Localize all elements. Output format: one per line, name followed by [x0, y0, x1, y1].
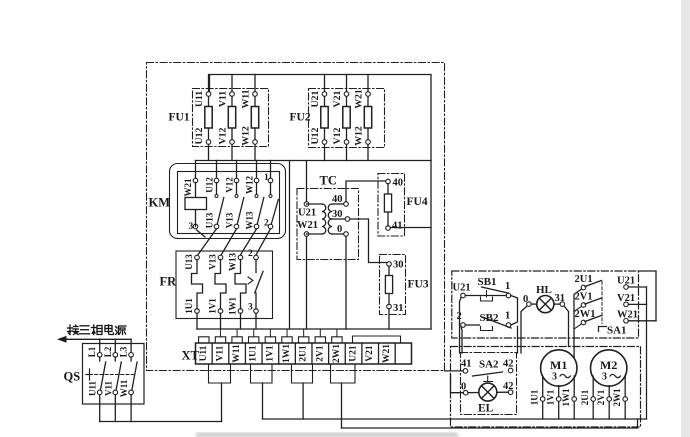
terminal XT cell 2U1 [294, 343, 296, 364]
switch QS pole L2-V11 [114, 339, 116, 355]
terminal XT cell V11 [211, 343, 213, 364]
svg-text:HL: HL [536, 284, 552, 296]
svg-text:30: 30 [393, 260, 404, 271]
svg-text:W21: W21 [382, 344, 392, 363]
svg-text:3: 3 [189, 222, 194, 232]
svg-text:1: 1 [505, 281, 510, 292]
svg-text:W21: W21 [297, 220, 318, 231]
svg-text:SB1: SB1 [478, 276, 497, 288]
wire SA1 left bundle [574, 289, 582, 347]
wire 0 left [451, 375, 464, 393]
wire XT bottom loop C [292, 364, 313, 383]
svg-text:SA1: SA1 [607, 325, 627, 337]
svg-text:2U1: 2U1 [580, 389, 590, 405]
lamp EL [479, 383, 497, 401]
svg-text:30: 30 [332, 209, 343, 220]
svg-text:2W1: 2W1 [332, 344, 342, 363]
label jie san xiang dian yuan (connect three-phase supply) [68, 325, 79, 335]
fuse FU2 element U21 [324, 75, 326, 161]
wire U21 down [460, 297, 462, 353]
svg-text:L3: L3 [119, 346, 129, 357]
transformer TC boundary [297, 189, 359, 260]
wire W21 top link [639, 271, 657, 321]
svg-text:FU4: FU4 [407, 196, 428, 208]
svg-text:W11: W11 [119, 379, 129, 397]
svg-text:V21: V21 [365, 345, 375, 362]
terminal XT cell U21 [344, 343, 346, 364]
fuse FU1 element W11 [254, 75, 256, 161]
svg-text:FU3: FU3 [408, 279, 429, 291]
wire node 1 down [517, 327, 519, 354]
wire vertical link node 2 [289, 161, 291, 330]
svg-text:31: 31 [555, 293, 566, 304]
svg-text:40: 40 [393, 178, 404, 189]
svg-text:U11: U11 [194, 91, 205, 107]
switch SA1 pole 2V1-V21 [581, 303, 586, 308]
svg-text:1V1: 1V1 [546, 389, 556, 405]
wire TC primary riser [306, 161, 308, 205]
svg-text:V13: V13 [225, 212, 235, 228]
wire SA1 bundle into panel [573, 347, 575, 358]
svg-text:U21: U21 [453, 283, 471, 294]
thermal relay FR boundary [176, 251, 273, 319]
svg-text:2U1: 2U1 [299, 345, 309, 362]
svg-text:3: 3 [552, 372, 557, 383]
wire SB1-1 to SB2-1 [511, 296, 518, 326]
svg-text:U12: U12 [205, 177, 215, 193]
svg-text:W21: W21 [617, 309, 638, 320]
thermal relay FR contact 2-3 [254, 255, 259, 260]
wire KM 2 to FR [256, 229, 271, 256]
svg-text:M1: M1 [550, 358, 567, 372]
fuse group FU1 boundary [193, 89, 269, 147]
switch SA1 linkage [601, 282, 603, 324]
fuse FU4 boundary [378, 174, 405, 237]
svg-text:U12: U12 [194, 127, 205, 144]
svg-text:FU2: FU2 [290, 112, 311, 124]
terminal XT cell 2W1 [328, 343, 330, 364]
svg-text:W13: W13 [245, 211, 255, 230]
svg-text:KM: KM [149, 196, 171, 210]
svg-text:1: 1 [505, 311, 510, 322]
switch lamp box SA2 EL [461, 353, 517, 415]
fuse FU1 element U11 [208, 75, 210, 161]
svg-text:U21: U21 [310, 90, 321, 107]
fuse FU3 boundary [380, 255, 406, 315]
svg-text:V11: V11 [215, 345, 225, 361]
wire XT bottom loop D [331, 364, 356, 383]
contactor KM outer boundary [170, 164, 286, 239]
main enclosure dash-dot border [147, 63, 445, 371]
svg-text:M2: M2 [600, 358, 617, 372]
wire XT bottom loop A [209, 364, 231, 383]
arrow to three-phase supply [61, 338, 132, 340]
lamp HL [537, 296, 554, 313]
svg-text:L1: L1 [87, 346, 97, 357]
wire FR outputs down to bundle [196, 313, 198, 329]
svg-text:1U1: 1U1 [184, 298, 194, 314]
svg-text:1W1: 1W1 [228, 297, 238, 316]
wire TC 30 to FU3 [350, 219, 387, 263]
svg-text:3: 3 [602, 372, 607, 383]
motor M2 lead 2U1 [592, 376, 594, 419]
svg-text:40: 40 [332, 194, 343, 205]
contactor KM main contact V12-V13 [234, 178, 239, 183]
wire bundle bottom (FR outputs to XT) [197, 328, 431, 330]
motor M2 lead 2W1 [624, 376, 626, 419]
svg-text:1U1: 1U1 [249, 345, 259, 362]
svg-text:EL: EL [478, 403, 494, 415]
svg-text:1U1: 1U1 [530, 389, 540, 405]
svg-text:V13: V13 [208, 254, 218, 270]
svg-text:FR: FR [160, 275, 178, 289]
svg-text:V21: V21 [617, 293, 635, 304]
button SB2 [461, 323, 466, 328]
svg-text:2V1: 2V1 [315, 345, 325, 362]
svg-text:W13: W13 [228, 253, 238, 272]
scan caption blur bottom [196, 433, 458, 437]
wire KM V13 to FR [221, 229, 237, 256]
thermal relay FR heater U13-1U1 [195, 255, 200, 260]
svg-text:1W1: 1W1 [282, 344, 292, 363]
svg-text:QS: QS [64, 370, 81, 384]
terminal XT cell 1V1 [261, 343, 263, 364]
motor M2 [591, 350, 627, 386]
fuse group FU2 boundary [309, 89, 385, 148]
wire HL 31 down [564, 306, 569, 347]
svg-text:U11: U11 [88, 381, 98, 397]
contactor KM auxiliary contact 1-2 [268, 178, 273, 183]
terminal XT cell V21 [361, 343, 363, 364]
svg-text:0: 0 [523, 294, 528, 305]
button panel boundary [452, 271, 639, 338]
fuse FU4 element [386, 179, 391, 184]
switch QS boundary [83, 344, 145, 405]
fuse FU2 element W21 [367, 75, 369, 161]
svg-text:W12: W12 [241, 126, 252, 146]
svg-text:W11: W11 [241, 89, 252, 108]
svg-text:41: 41 [461, 359, 472, 370]
svg-text:V21: V21 [332, 90, 343, 107]
button SB1 [461, 293, 466, 298]
svg-text:TC: TC [320, 174, 337, 188]
svg-text:V12: V12 [218, 127, 229, 144]
fuse FU3 element [387, 262, 392, 267]
wire drop node 2U [302, 383, 304, 419]
svg-text:1W1: 1W1 [561, 388, 571, 407]
svg-text:2V1: 2V1 [575, 292, 593, 303]
switch QS pole L3-W11 [130, 339, 132, 355]
wire bus motors [263, 418, 647, 420]
svg-text:U21: U21 [298, 208, 316, 219]
svg-text:U12: U12 [310, 127, 321, 144]
wire XT stubs from bundle [219, 329, 221, 337]
svg-text:31: 31 [393, 303, 404, 314]
wire bus lower [342, 427, 638, 429]
svg-text:U21: U21 [617, 276, 635, 287]
svg-text:2W1: 2W1 [575, 309, 596, 320]
switch SA1 handle [599, 327, 607, 332]
wire KM coil tail [197, 230, 205, 237]
svg-text:2V1: 2V1 [596, 389, 606, 405]
svg-text:41: 41 [392, 221, 403, 232]
wire FU4 41 to right bundle [391, 227, 432, 229]
svg-text:0: 0 [337, 224, 342, 235]
contactor KM main contact W12-W13 [254, 178, 259, 183]
wire drop to lower bus [341, 383, 343, 428]
svg-text:2: 2 [248, 249, 253, 259]
motor M1 lead 1V1 [558, 386, 560, 419]
switch QS linkage [90, 374, 134, 376]
svg-text:U13: U13 [184, 254, 194, 270]
svg-text:1V1: 1V1 [265, 345, 275, 362]
fuse FU2 element V21 [346, 75, 348, 161]
svg-text:U21: U21 [349, 345, 359, 362]
wire bus QS to XT [100, 421, 222, 423]
svg-text:W21: W21 [183, 178, 193, 197]
wire bundle middle (FU outputs to KM and TC) [196, 160, 432, 162]
svg-text:W11: W11 [232, 344, 242, 363]
motor panel boundary [451, 347, 641, 428]
svg-text:V12: V12 [332, 127, 343, 144]
motor M1 [541, 350, 577, 386]
contactor KM coil [193, 178, 198, 183]
terminal XT cell W11 [228, 343, 230, 364]
wire bundle top and right (inner C) [210, 75, 432, 330]
transformer TC secondary winding [344, 202, 349, 207]
wire QS outputs down [99, 395, 101, 422]
wire drop to motor bus [262, 383, 264, 419]
transformer TC primary winding [304, 202, 309, 207]
thermal relay FR heater V13-1V1 [218, 255, 223, 260]
terminal XT cell 2V1 [311, 343, 313, 364]
thermal relay FR heater W13-1W1 [238, 255, 243, 260]
wire drop to QS bus [221, 383, 223, 422]
switch SA1 pole 2W1-W21 [581, 320, 586, 325]
fuse FU1 element V11 [231, 75, 233, 161]
switch SA2 [463, 369, 468, 374]
svg-text:L2: L2 [103, 346, 113, 357]
wire TC 40 to FU4 [346, 181, 387, 202]
switch QS pole L1-U11 [99, 339, 101, 355]
terminal XT cell 1W1 [278, 343, 280, 364]
wire bus riser right [637, 419, 639, 428]
contactor KM main contact U12-U13 [214, 178, 219, 183]
motor M1 lead 1U1 [542, 376, 544, 419]
svg-text:XT: XT [182, 349, 200, 363]
wire KM W13 to FR [240, 229, 256, 256]
svg-text:V11: V11 [103, 381, 113, 397]
svg-text:2: 2 [264, 219, 269, 229]
svg-text:V11: V11 [218, 91, 229, 107]
svg-text:W12: W12 [245, 176, 255, 195]
motor M1 lead 1W1 [573, 376, 575, 419]
svg-text:U11: U11 [199, 345, 209, 361]
terminal XT cell W21 [378, 343, 380, 364]
wire TC primary bottom to bundle [306, 237, 308, 330]
wire FU3 31 down to bundle [388, 309, 390, 329]
switch SA1 pole 2U1-U21 [581, 285, 586, 290]
wire XT top loop right [353, 336, 401, 343]
svg-text:SB2: SB2 [480, 312, 499, 324]
svg-text:2U1: 2U1 [575, 274, 593, 285]
wire XT top loops [199, 337, 209, 343]
svg-text:0: 0 [461, 382, 466, 393]
svg-text:42: 42 [503, 381, 514, 392]
terminal strip XT body [196, 343, 412, 364]
wire TC 0 down to bundle [345, 237, 347, 330]
svg-text:U13: U13 [205, 212, 215, 228]
svg-text:42: 42 [503, 359, 514, 370]
wire KM U13 to FR [197, 229, 216, 256]
svg-text:FU1: FU1 [169, 112, 190, 124]
svg-text:2W1: 2W1 [612, 388, 622, 407]
wire bus right vertical [646, 287, 648, 419]
svg-text:W21: W21 [354, 89, 365, 109]
wire 41 left [445, 370, 464, 372]
svg-text:1: 1 [264, 173, 269, 183]
contactor KM inner box [178, 172, 280, 234]
svg-text:V12: V12 [225, 177, 235, 193]
wire KM risers [195, 161, 197, 181]
motor M2 lead 2V1 [608, 386, 610, 419]
svg-text:3: 3 [248, 303, 253, 313]
scan gray edge right [681, 0, 690, 437]
svg-text:SA2: SA2 [479, 359, 499, 371]
svg-text:1V1: 1V1 [208, 298, 218, 314]
svg-text:W12: W12 [354, 126, 365, 146]
wire XT bottom loop B [251, 364, 273, 383]
wire SA1 right bus [628, 286, 646, 288]
wire HL 0 down [521, 306, 527, 353]
terminal XT cell 1U1 [244, 343, 246, 364]
wire node 2 down [460, 327, 463, 353]
